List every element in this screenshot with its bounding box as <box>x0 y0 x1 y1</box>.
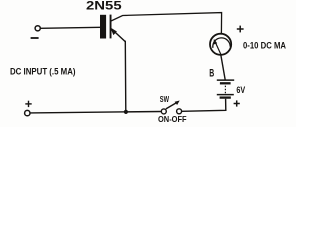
wire: base lead <box>40 27 100 28</box>
svg-text:0-10 DC MA: 0-10 DC MA <box>243 40 286 50</box>
wire: battery to bottom rail <box>182 99 226 112</box>
node: emitter junction <box>124 110 128 114</box>
wire: collector to meter <box>111 13 222 34</box>
terminal: DC input positive <box>25 101 32 116</box>
svg-text:SW: SW <box>160 95 170 104</box>
transistor Q1 2N55 (base bar) <box>100 15 112 39</box>
svg-text:DC INPUT (.5 MA): DC INPUT (.5 MA) <box>10 66 76 77</box>
svg-text:B: B <box>209 67 214 79</box>
wire: meter to battery <box>221 55 225 80</box>
wire: bottom rail left <box>30 112 161 113</box>
label meter plus <box>237 26 244 33</box>
battery B 6V <box>217 80 234 98</box>
svg-text:2N55: 2N55 <box>86 0 122 12</box>
terminal: DC input negative <box>31 26 41 38</box>
svg-text:ON-OFF: ON-OFF <box>158 114 187 124</box>
switch SW ON-OFF <box>161 101 181 114</box>
wire: emitter lead with arrow <box>110 27 126 111</box>
label battery plus <box>234 100 240 106</box>
meter M 0-10 DC MA <box>210 34 231 55</box>
svg-text:6V: 6V <box>236 85 245 95</box>
